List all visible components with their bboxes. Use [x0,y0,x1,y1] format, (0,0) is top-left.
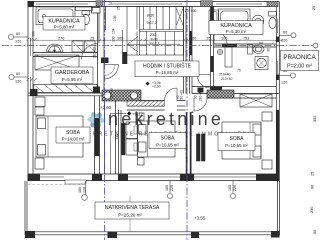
room label KUPAONICA left [43,17,85,31]
dimension line with ticks [32,39,283,41]
top wall window glass lines [36,3,88,5]
svg-text:+2,60: +2,60 [152,85,161,89]
svg-text:120: 120 [281,81,287,85]
svg-text:900: 900 [191,9,197,13]
svg-text:60: 60 [16,32,20,36]
svg-text:70: 70 [237,69,241,73]
svg-text:90: 90 [311,185,315,189]
svg-text:100: 100 [221,36,227,40]
room label SOBA right [218,133,255,151]
svg-text:SOBA: SOBA [161,136,176,142]
svg-text:25: 25 [109,2,113,6]
right soba bed [222,122,261,159]
left exterior wall [27,2,29,181]
garderoba bottom / soba L top [28,92,104,94]
svg-text:210+40: 210+40 [180,90,184,101]
svg-text:9x17,2: 9x17,2 [147,21,157,25]
svg-text:+3,55: +3,55 [194,216,206,221]
right margin rotated dimension numbers [310,6,317,234]
svg-text:210+40: 210+40 [219,73,231,77]
svg-text:+2,60: +2,60 [100,105,112,110]
svg-text:25: 25 [90,36,94,40]
svg-text:SOBA: SOBA [66,130,81,136]
axis end bubble right [313,43,318,48]
svg-text:300: 300 [32,31,36,37]
svg-text:60: 60 [16,72,20,76]
window dimension ticks left wall [27,38,37,81]
svg-text:753: 753 [243,36,249,40]
svg-text:220: 220 [233,185,237,191]
svg-text:60: 60 [259,42,263,46]
svg-text:232: 232 [150,33,156,37]
svg-text:180: 180 [165,185,169,191]
corridor / closet strip walls [115,96,117,174]
soba L side furniture [35,97,45,107]
room labels [43,17,319,220]
svg-text:P=10,65 m²: P=10,65 m² [225,143,248,148]
svg-text:315: 315 [115,134,119,140]
door swing arcs [82,31,228,111]
bedroom furniture [34,55,273,169]
level marks [100,105,206,221]
svg-text:90: 90 [267,48,271,52]
room label GARDEROBA [51,67,93,84]
svg-text:90: 90 [313,230,317,234]
solid wall piers top and bottom [28,1,280,181]
dimension numbers [58,33,263,45]
svg-text:120: 120 [15,40,21,44]
interior walls [28,6,279,174]
praonica north wall [214,43,277,45]
svg-text:120: 120 [281,39,287,43]
svg-text:230: 230 [310,207,314,213]
svg-text:P=5,30 m²: P=5,30 m² [226,29,247,34]
svg-text:25: 25 [312,6,316,10]
stairs [123,6,184,64]
bottom window 180/220 texts [78,185,237,193]
svg-text:180: 180 [78,187,82,193]
svg-text:210+40: 210+40 [110,88,114,99]
wall hodnik west x=97.5-104 [97,6,99,90]
exterior walls [28,2,279,184]
rotated door size labels [32,31,271,140]
svg-text:60: 60 [283,31,287,35]
svg-text:105: 105 [113,15,117,21]
svg-text:25: 25 [117,6,121,10]
center soba top wall [127,100,165,102]
right exterior wall [278,2,280,181]
level diamond symbol [127,111,131,115]
room label PRAONICA [281,51,319,71]
bottom wall of rooms [28,173,279,175]
door leafs right soba [197,134,201,161]
garderoba X wardrobe [35,55,79,70]
hatched piers and shafts [102,37,279,175]
right soba wardrobe [240,94,272,107]
svg-text:25: 25 [207,36,211,40]
dashed reference line left terrace [28,184,86,186]
furniture: bathroom L [36,7,95,52]
svg-text:220: 220 [83,187,87,193]
svg-text:P=14,00 m²: P=14,00 m² [62,137,85,142]
soba L right wall [94,96,96,174]
terrace corner piers and posts [25,231,280,238]
top exterior wall [28,1,279,3]
svg-text:9x17,2: 9x17,2 [150,41,160,45]
soba L bed [36,116,83,157]
center soba bed [138,121,176,157]
bathroomL bottom wall [33,52,98,54]
svg-text:P=5,80 m²: P=5,80 m² [54,25,75,30]
svg-text:105: 105 [117,36,123,40]
bottom window annotation bubbles [82,181,236,200]
center soba closet boxes [126,122,138,139]
svg-text:SOBA: SOBA [230,136,245,142]
svg-text:210+40: 210+40 [221,77,233,81]
furniture: bathroom R + praonica [209,9,277,70]
svg-text:210+40: 210+40 [199,90,203,101]
svg-text:104: 104 [112,28,116,34]
svg-text:90: 90 [194,95,198,99]
right margin window annotations [279,33,296,78]
room label NATKRIVENA TERASA [95,202,169,219]
svg-text:P=25,20 m²: P=25,20 m² [118,213,142,218]
right soba top wall [192,86,276,88]
garderoba wardrobe band [34,85,98,93]
corridor wall pier [123,52,128,64]
watermark logo flower [87,111,105,129]
svg-text:+0,12: +0,12 [132,111,144,116]
svg-text:P=2,00 m²: P=2,00 m² [287,64,312,70]
svg-text:220: 220 [170,185,174,191]
party wall upper part [183,6,185,93]
svg-text:25: 25 [311,172,315,176]
interior wall solid fills [30,6,237,174]
svg-text:P=15,85 m²: P=15,85 m² [156,70,179,75]
svg-text:100: 100 [112,36,116,42]
svg-text:HODNIK I STUBIŠTE: HODNIK I STUBIŠTE [143,63,192,70]
door niche block [198,88,204,93]
svg-text:nekretnine: nekretnine [108,109,224,129]
svg-text:P=5,95 m²: P=5,95 m² [62,77,83,82]
svg-text:100: 100 [190,36,196,40]
room label KUPAONICA right [209,21,263,35]
terrace boundary walls [25,181,280,235]
svg-text:NATKRIVENA TERASA: NATKRIVENA TERASA [105,205,160,211]
svg-text:120: 120 [15,80,21,84]
svg-text:P=10,65 m²: P=10,65 m² [156,143,179,148]
svg-text:270: 270 [58,36,64,40]
room label HODNIK I STUBISTE [135,61,199,77]
landing level diamond [146,82,150,86]
bathroomR west wall [210,6,212,90]
svg-text:355: 355 [313,116,317,122]
svg-text:180: 180 [228,185,232,191]
svg-text:8x30: 8x30 [147,14,154,18]
svg-text:GARDEROBA: GARDEROBA [55,70,90,76]
svg-text:PRAONICA: PRAONICA [283,54,316,61]
room label SOBA center [149,133,186,149]
left margin window annotations [8,34,28,79]
svg-text:210+40: 210+40 [93,47,97,58]
room label SOBA left [56,127,90,143]
